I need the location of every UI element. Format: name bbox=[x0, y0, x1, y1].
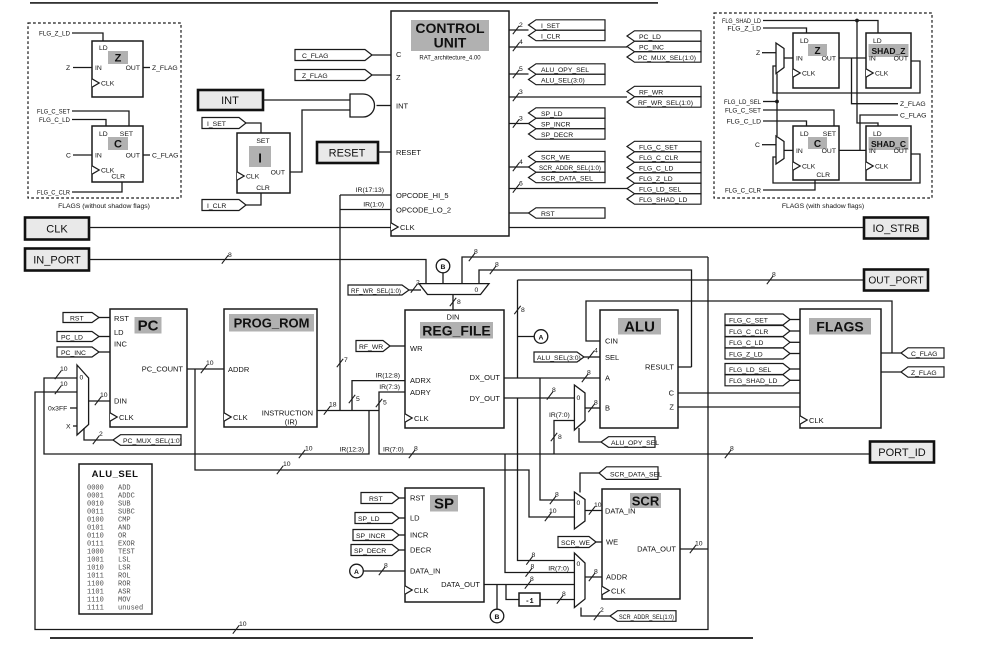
tag SP_LD bbox=[355, 513, 405, 524]
svg-text:INCR: INCR bbox=[410, 531, 429, 540]
block SP bbox=[405, 488, 484, 602]
flip-flop SHAD_Z bbox=[866, 33, 911, 88]
tag PC_MUX_SEL(1:0) bbox=[84, 428, 182, 445]
svg-text:DX_OUT: DX_OUT bbox=[470, 373, 501, 382]
svg-text:ALU_SEL: ALU_SEL bbox=[92, 469, 139, 480]
tag SCR_DATA_SEL (mux select) bbox=[580, 467, 662, 493]
svg-text:INT: INT bbox=[396, 102, 409, 111]
svg-text:(IR): (IR) bbox=[285, 418, 298, 427]
wire CIN from C_FLAG bbox=[586, 301, 892, 353]
svg-text:5: 5 bbox=[519, 66, 523, 73]
svg-text:EXOR: EXOR bbox=[118, 541, 136, 549]
svg-text:DATA_OUT: DATA_OUT bbox=[441, 580, 480, 589]
wire FLG_C_CLR to C.CLR bbox=[37, 182, 122, 197]
mux C select (shadow box) bbox=[776, 136, 784, 164]
svg-text:RST: RST bbox=[410, 494, 425, 503]
port IO_STRB bbox=[864, 218, 928, 239]
wire INT to AND gate bbox=[263, 99, 350, 101]
wire C.OUT to SHAD_C.IN bbox=[839, 149, 866, 151]
svg-text:1000: 1000 bbox=[87, 549, 104, 557]
svg-text:C: C bbox=[396, 50, 402, 59]
svg-text:LD: LD bbox=[410, 514, 420, 523]
svg-text:IR(7:0): IR(7:0) bbox=[383, 447, 404, 454]
svg-text:8: 8 bbox=[414, 446, 418, 453]
wire SCR addr mux out to ADDR bbox=[585, 569, 602, 582]
tag ALU_OPY_SEL (CU output) bbox=[529, 64, 606, 74]
svg-text:A: A bbox=[605, 374, 610, 383]
svg-text:IN: IN bbox=[95, 153, 102, 160]
svg-text:0: 0 bbox=[577, 395, 581, 402]
svg-text:WE: WE bbox=[606, 538, 618, 547]
svg-text:4: 4 bbox=[519, 39, 523, 46]
svg-text:FLG_LD_SEL: FLG_LD_SEL bbox=[729, 367, 772, 374]
wire FLAGS Z output bbox=[881, 371, 901, 373]
svg-text:LD: LD bbox=[873, 38, 882, 45]
tag PC_LD bbox=[627, 31, 701, 41]
svg-text:FLG_Z_LD: FLG_Z_LD bbox=[639, 176, 673, 183]
wire X constant bbox=[66, 424, 77, 431]
svg-text:8: 8 bbox=[558, 434, 562, 441]
svg-text:10: 10 bbox=[206, 360, 214, 367]
wire SCR DATA_OUT to return loop bbox=[680, 541, 708, 554]
svg-text:RF_WR: RF_WR bbox=[359, 344, 383, 351]
svg-text:FLAGS: FLAGS bbox=[816, 319, 863, 335]
mux SCR DATA_IN select bbox=[574, 492, 585, 529]
tag Z_FLAG (FLAGS output) bbox=[901, 367, 944, 377]
svg-text:SCR_ADDR_SEL(1:0): SCR_ADDR_SEL(1:0) bbox=[619, 614, 674, 621]
wire CU to RF tags bbox=[509, 89, 627, 101]
wire FLG_Z_LD to Z.LD bbox=[39, 31, 103, 42]
svg-text:RF_WR: RF_WR bbox=[639, 89, 663, 96]
tag C_FLAG (FLAGS output) bbox=[901, 348, 944, 358]
svg-text:CLK: CLK bbox=[414, 586, 429, 595]
svg-text:C: C bbox=[114, 139, 122, 151]
svg-text:DIN: DIN bbox=[114, 397, 127, 406]
wire IR(1:0) to CU OPCODE_LO_2 bbox=[340, 202, 391, 210]
svg-text:OUT: OUT bbox=[822, 56, 836, 63]
wire CU to PC tags bbox=[509, 39, 627, 51]
block CONTROL UNIT bbox=[391, 11, 509, 236]
svg-text:RST: RST bbox=[541, 211, 555, 218]
tag FLG_C_LD (CU output) bbox=[627, 162, 701, 172]
svg-text:I_CLR: I_CLR bbox=[207, 203, 226, 210]
svg-text:FLAGS (without shadow flags): FLAGS (without shadow flags) bbox=[58, 203, 150, 210]
tag FLG_C_LD (FLAGS input) bbox=[725, 337, 800, 348]
port CLK bbox=[25, 218, 89, 240]
wire AND output to CU INT bbox=[377, 105, 392, 107]
svg-text:LD: LD bbox=[873, 131, 882, 138]
svg-text:FLAGS (with shadow flags): FLAGS (with shadow flags) bbox=[782, 203, 864, 210]
svg-text:SUB: SUB bbox=[118, 501, 131, 509]
svg-text:Z: Z bbox=[66, 65, 70, 72]
tag FLG_C_SET (CU output) bbox=[627, 141, 701, 151]
tag RF_WR_SEL(1:0) bbox=[348, 280, 421, 296]
svg-text:CLK: CLK bbox=[802, 71, 816, 78]
wire CU to FLG tags bbox=[509, 181, 627, 193]
svg-text:SEL: SEL bbox=[605, 353, 619, 362]
wire DX vertical (OUT_PORT / A / SCR addr mux) bbox=[517, 280, 519, 378]
svg-text:A: A bbox=[354, 569, 359, 576]
mux PC input select bbox=[77, 365, 89, 435]
port OUT_PORT bbox=[864, 270, 928, 291]
circle A connector (SP input) bbox=[350, 563, 405, 578]
tag FLG_Z_LD (FLAGS input) bbox=[725, 348, 800, 359]
svg-text:FLG_C_SET: FLG_C_SET bbox=[639, 144, 678, 151]
svg-text:ALU_SEL(3:0): ALU_SEL(3:0) bbox=[541, 77, 585, 84]
wire C_FLAG (shadow box) bbox=[860, 113, 926, 151]
wire SCR data mux out to DATA_IN bbox=[585, 502, 602, 515]
svg-text:IN: IN bbox=[95, 65, 102, 72]
tag FLG_C_CLR (CU output) bbox=[627, 152, 701, 162]
svg-text:2: 2 bbox=[600, 607, 604, 614]
svg-text:ROL: ROL bbox=[118, 573, 131, 581]
svg-text:RF_WR_SEL(1:0): RF_WR_SEL(1:0) bbox=[351, 288, 401, 295]
wire Z.OUT to SHAD_Z.IN bbox=[839, 57, 866, 59]
wire IR(17:13) to CU OPCODE_HI_5 bbox=[340, 187, 391, 195]
wire vertical 8 slash above REG_FILE right bbox=[514, 306, 525, 314]
svg-text:C_FLAG: C_FLAG bbox=[302, 53, 328, 60]
svg-text:LD: LD bbox=[114, 328, 124, 337]
svg-text:PC_MUX_SEL(1:0): PC_MUX_SEL(1:0) bbox=[123, 438, 182, 445]
tag SP_INCR (CU output) bbox=[529, 118, 606, 128]
svg-text:INSTRUCTION: INSTRUCTION bbox=[262, 409, 313, 418]
wire CU to SP tags bbox=[509, 116, 529, 128]
top frame line bbox=[30, 2, 658, 4]
svg-text:10: 10 bbox=[695, 541, 703, 548]
svg-text:FLG_C_CLR: FLG_C_CLR bbox=[639, 155, 678, 162]
svg-text:OR: OR bbox=[118, 533, 127, 541]
svg-text:ALU_OPY_SEL: ALU_OPY_SEL bbox=[541, 67, 589, 74]
wire ALU result to DIN mux input 3 bbox=[479, 262, 692, 368]
wire B mux out to ALU B bbox=[585, 400, 600, 413]
wire IN_PORT to REG_FILE DIN mux bbox=[89, 252, 426, 284]
wire PC_COUNT loop down to SCR data mux bbox=[195, 369, 574, 517]
svg-text:CLK: CLK bbox=[46, 223, 68, 235]
wire FLG_C_SET (shadow box) bbox=[725, 108, 834, 127]
wire FLG_SHAD_LD bbox=[722, 18, 878, 126]
svg-text:C: C bbox=[814, 139, 821, 150]
svg-text:C_FLAG: C_FLAG bbox=[911, 351, 937, 358]
wire I.OUT to AND gate bbox=[290, 110, 350, 172]
tag RST (PC input) bbox=[63, 313, 110, 323]
svg-text:0: 0 bbox=[577, 561, 581, 568]
wire ALU RESULT output bbox=[678, 366, 692, 368]
svg-text:ADDR: ADDR bbox=[228, 365, 250, 374]
svg-text:1101: 1101 bbox=[87, 589, 104, 597]
svg-text:TEST: TEST bbox=[118, 549, 135, 557]
svg-text:Z_FLAG: Z_FLAG bbox=[911, 370, 937, 377]
svg-text:MOV: MOV bbox=[118, 597, 131, 605]
svg-text:DIN: DIN bbox=[447, 313, 460, 322]
svg-text:ALU_SEL(3:0): ALU_SEL(3:0) bbox=[537, 355, 581, 362]
tag PC_LD bbox=[57, 332, 110, 342]
svg-text:DATA_OUT: DATA_OUT bbox=[637, 545, 676, 554]
port INT bbox=[198, 90, 263, 110]
svg-text:CLK: CLK bbox=[119, 413, 134, 422]
bottom frame line bbox=[50, 637, 753, 639]
wire DX down to SCR data mux input bbox=[540, 378, 574, 500]
wire Z_FLAG output bbox=[143, 65, 178, 72]
svg-text:unused: unused bbox=[118, 605, 143, 613]
wire IR bus vertical to CU bbox=[337, 195, 348, 411]
port RESET bbox=[317, 142, 378, 163]
svg-text:Z: Z bbox=[756, 50, 760, 57]
tag RST (CU output) bbox=[529, 208, 606, 218]
svg-text:OUT: OUT bbox=[126, 153, 140, 160]
svg-text:SP_INCR: SP_INCR bbox=[356, 533, 386, 540]
svg-text:RST: RST bbox=[70, 315, 84, 322]
svg-text:ADRY: ADRY bbox=[410, 388, 431, 397]
tag I_CLR bbox=[202, 193, 261, 211]
block PC bbox=[110, 309, 187, 427]
tag RST (SP input) bbox=[361, 493, 405, 504]
svg-text:UNIT: UNIT bbox=[434, 35, 467, 51]
svg-text:SUBC: SUBC bbox=[118, 509, 135, 517]
flip-flop C (left flags box) bbox=[92, 126, 143, 182]
svg-text:1110: 1110 bbox=[87, 597, 104, 605]
wire CU to SCR tags bbox=[509, 159, 529, 171]
wire FLG_Z_LD (shadow box) bbox=[727, 26, 806, 34]
svg-text:0010: 0010 bbox=[87, 501, 104, 509]
svg-text:CLR: CLR bbox=[816, 172, 830, 179]
svg-text:WR: WR bbox=[410, 344, 423, 353]
svg-text:5: 5 bbox=[356, 396, 360, 403]
tag PC_INC bbox=[57, 347, 110, 357]
svg-text:10: 10 bbox=[305, 446, 313, 453]
tag ALU_OPY_SEL (mux select) bbox=[579, 428, 659, 447]
svg-text:0110: 0110 bbox=[87, 533, 104, 541]
tag RF_WR_SEL(1:0) (CU output) bbox=[627, 97, 701, 107]
svg-text:CLK: CLK bbox=[875, 164, 889, 171]
wire CLK to CU bbox=[89, 227, 391, 229]
svg-text:ADDR: ADDR bbox=[606, 573, 628, 582]
wire FLAGS C output bbox=[881, 352, 901, 354]
svg-text:FLG_SHAD_LD: FLG_SHAD_LD bbox=[729, 378, 777, 385]
svg-text:FLG_Z_LD: FLG_Z_LD bbox=[39, 31, 70, 38]
svg-text:18: 18 bbox=[329, 402, 337, 409]
svg-text:8: 8 bbox=[772, 272, 776, 279]
svg-text:8: 8 bbox=[457, 299, 461, 306]
tag PC_MUX_SEL(1:0) bbox=[627, 52, 701, 62]
svg-text:B: B bbox=[605, 404, 610, 413]
svg-text:SCR_DATA_SEL: SCR_DATA_SEL bbox=[541, 175, 593, 182]
tag FLG_C_CLR (FLAGS input) bbox=[725, 326, 800, 337]
wire SHAD_C.OUT restore loop bbox=[773, 154, 920, 183]
dashed box: FLAGS (with shadow flags) bbox=[714, 13, 932, 198]
svg-text:IR(7:0): IR(7:0) bbox=[548, 566, 569, 573]
svg-text:4: 4 bbox=[594, 348, 598, 355]
wire IR(12:8) to ADRX bbox=[349, 373, 405, 411]
AND gate U2 bbox=[350, 94, 375, 117]
block -1 (decrementer) bbox=[506, 585, 574, 607]
svg-text:0000: 0000 bbox=[87, 485, 104, 493]
svg-text:FLG_SHAD_LD: FLG_SHAD_LD bbox=[722, 18, 761, 25]
svg-text:8: 8 bbox=[521, 307, 525, 314]
port IN_PORT bbox=[25, 249, 89, 271]
svg-text:CLR: CLR bbox=[256, 185, 270, 192]
svg-text:CLK: CLK bbox=[233, 413, 248, 422]
tag SCR_ADDR_SEL(1:0) (mux select) bbox=[581, 607, 676, 621]
svg-text:CLK: CLK bbox=[246, 174, 260, 181]
svg-text:C_FLAG: C_FLAG bbox=[900, 113, 926, 120]
wire CU to I_SET/I_CLR tags bbox=[509, 22, 529, 34]
svg-text:FLG_C_LD: FLG_C_LD bbox=[727, 119, 761, 126]
svg-text:CLK: CLK bbox=[809, 416, 824, 425]
svg-text:RST: RST bbox=[114, 314, 129, 323]
svg-text:RAT_architecture_4.00: RAT_architecture_4.00 bbox=[419, 56, 481, 62]
svg-text:SHAD_Z: SHAD_Z bbox=[871, 46, 905, 56]
svg-text:ALU: ALU bbox=[624, 319, 655, 336]
svg-text:SCR_WE: SCR_WE bbox=[561, 540, 591, 547]
svg-text:C: C bbox=[66, 153, 71, 160]
block REG_FILE bbox=[405, 310, 504, 428]
tag FLG_SHAD_LD (FLAGS input) bbox=[725, 375, 800, 386]
circle B connector (top) bbox=[436, 259, 450, 283]
svg-text:Z: Z bbox=[814, 46, 820, 57]
wire Z input bbox=[66, 65, 92, 72]
wire PC mux output to DIN bbox=[89, 392, 110, 405]
tag I_SET bbox=[202, 118, 261, 134]
tag RF_WR (CU output) bbox=[627, 86, 701, 96]
svg-text:FLG_LD_SEL: FLG_LD_SEL bbox=[724, 99, 761, 106]
svg-text:8: 8 bbox=[587, 370, 591, 377]
svg-text:10: 10 bbox=[239, 621, 247, 628]
table ALU_SEL opcode list bbox=[79, 464, 152, 614]
svg-text:ADRX: ADRX bbox=[410, 376, 431, 385]
svg-text:C: C bbox=[755, 142, 760, 149]
svg-text:OUT: OUT bbox=[894, 56, 908, 63]
svg-text:INC: INC bbox=[114, 340, 128, 349]
flip-flop I (interrupt enable) bbox=[237, 133, 290, 193]
svg-text:SCR: SCR bbox=[632, 494, 660, 509]
mux REG_FILE DIN select bbox=[419, 284, 489, 295]
svg-text:Z: Z bbox=[115, 53, 122, 65]
wire ALU Z to FLAGS bbox=[678, 406, 800, 408]
wire CU to IO_STRB bbox=[509, 227, 864, 229]
svg-text:LD: LD bbox=[800, 131, 809, 138]
svg-text:OUT: OUT bbox=[894, 148, 908, 155]
tag RF_WR (REG_FILE input) bbox=[356, 341, 405, 352]
tag FLG_Z_LD (CU output) bbox=[627, 173, 701, 183]
port PORT_ID bbox=[870, 442, 934, 463]
svg-text:CLK: CLK bbox=[101, 81, 115, 88]
wire RESET to CU bbox=[378, 151, 391, 153]
svg-text:I_CLR: I_CLR bbox=[541, 33, 560, 40]
svg-text:OUT: OUT bbox=[822, 148, 836, 155]
svg-text:FLG_C_CLR: FLG_C_CLR bbox=[729, 329, 768, 336]
svg-text:INT: INT bbox=[221, 95, 239, 107]
wire C input bbox=[66, 153, 92, 160]
svg-text:DY_OUT: DY_OUT bbox=[470, 394, 501, 403]
svg-text:PC_INC: PC_INC bbox=[61, 350, 86, 357]
svg-text:0011: 0011 bbox=[87, 509, 104, 517]
wire SCR data to DIN mux input 0 bbox=[462, 249, 708, 284]
svg-text:2: 2 bbox=[99, 431, 103, 438]
tag FLG_LD_SEL (CU output) bbox=[627, 183, 701, 193]
svg-text:8: 8 bbox=[495, 262, 499, 269]
svg-text:RESULT: RESULT bbox=[645, 363, 674, 372]
svg-text:10: 10 bbox=[549, 508, 557, 515]
svg-text:LSL: LSL bbox=[118, 557, 131, 565]
svg-text:IN_PORT: IN_PORT bbox=[33, 254, 81, 266]
svg-text:0x3FF: 0x3FF bbox=[48, 406, 67, 413]
svg-text:FLG_LD_SEL: FLG_LD_SEL bbox=[639, 186, 682, 193]
svg-text:1011: 1011 bbox=[87, 573, 104, 581]
tag SCR_DATA_SEL (CU output) bbox=[529, 172, 606, 182]
svg-text:PC: PC bbox=[138, 318, 159, 335]
svg-text:OUT_PORT: OUT_PORT bbox=[868, 276, 923, 287]
dashed box: FLAGS (without shadow flags) bbox=[28, 23, 181, 198]
svg-text:5: 5 bbox=[383, 400, 387, 407]
svg-text:0111: 0111 bbox=[87, 541, 104, 549]
wire Z input (shadow box) bbox=[756, 50, 776, 57]
svg-text:FLG_C_SET: FLG_C_SET bbox=[725, 108, 761, 115]
wire C mux out to C.IN bbox=[784, 149, 793, 151]
svg-text:CLK: CLK bbox=[400, 223, 415, 232]
svg-text:SCR_WE: SCR_WE bbox=[541, 154, 571, 161]
svg-text:CLK: CLK bbox=[611, 586, 626, 595]
svg-text:SP_DECR: SP_DECR bbox=[541, 132, 573, 139]
svg-text:6: 6 bbox=[519, 181, 523, 188]
svg-text:8: 8 bbox=[384, 563, 388, 570]
wire FLG_C_LD to C.LD bbox=[39, 117, 106, 126]
svg-text:RESET: RESET bbox=[396, 148, 421, 157]
svg-text:AND: AND bbox=[118, 525, 131, 533]
svg-text:1100: 1100 bbox=[87, 581, 104, 589]
svg-text:10: 10 bbox=[100, 392, 108, 399]
svg-text:PORT_ID: PORT_ID bbox=[878, 447, 926, 459]
svg-text:B: B bbox=[441, 264, 446, 271]
svg-text:ROR: ROR bbox=[118, 581, 131, 589]
svg-text:IN: IN bbox=[796, 148, 803, 155]
wire Z_FLAG (shadow box) bbox=[852, 58, 926, 108]
svg-text:C: C bbox=[669, 389, 675, 398]
tag SCR_ADDR_SEL(1:0) (CU output) bbox=[529, 162, 606, 172]
svg-text:FLG_C_LD: FLG_C_LD bbox=[639, 165, 673, 172]
wire CU to RST tag bbox=[509, 212, 529, 214]
svg-text:8: 8 bbox=[730, 446, 734, 453]
tag C_FLAG (input to control unit) bbox=[295, 50, 391, 61]
tag FLG_C_SET (FLAGS input) bbox=[725, 314, 800, 325]
svg-text:SP_LD: SP_LD bbox=[541, 111, 563, 118]
svg-text:Z_FLAG: Z_FLAG bbox=[302, 73, 328, 80]
svg-text:RST: RST bbox=[369, 496, 383, 503]
svg-text:IN: IN bbox=[796, 56, 803, 63]
svg-text:LD: LD bbox=[99, 45, 108, 52]
svg-text:8: 8 bbox=[555, 492, 559, 499]
wire IR(7:0) bus to PORT_ID bbox=[379, 411, 870, 459]
mux SCR ADDR select bbox=[574, 553, 585, 608]
svg-text:CLK: CLK bbox=[802, 164, 816, 171]
wire SP DATA_OUT bbox=[484, 576, 574, 589]
svg-text:PC_INC: PC_INC bbox=[639, 44, 664, 51]
svg-text:8: 8 bbox=[552, 387, 556, 394]
svg-text:IR(1:0): IR(1:0) bbox=[363, 202, 384, 209]
tag SP_LD (CU output) bbox=[529, 108, 606, 118]
svg-text:0100: 0100 bbox=[87, 517, 104, 525]
svg-text:IR(17:13): IR(17:13) bbox=[356, 187, 384, 194]
block ALU bbox=[600, 310, 678, 428]
svg-text:0001: 0001 bbox=[87, 493, 104, 501]
svg-text:IN: IN bbox=[869, 56, 876, 63]
svg-text:3: 3 bbox=[519, 116, 523, 123]
tag SP_DECR (CU output) bbox=[529, 129, 606, 139]
svg-text:Z_FLAG: Z_FLAG bbox=[900, 101, 926, 108]
svg-text:Z_FLAG: Z_FLAG bbox=[152, 65, 178, 72]
svg-text:I_SET: I_SET bbox=[207, 121, 226, 128]
wire FLG_C_LD (shadow box) bbox=[727, 119, 807, 127]
wire CU to ALU sel tags bbox=[509, 66, 529, 78]
